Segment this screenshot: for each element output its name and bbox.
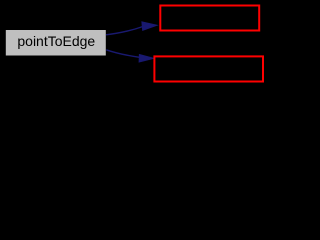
node pointToEdge (current function, grey box) [5,30,106,57]
bottom called node (truncated, red box) [154,56,263,81]
top called node (truncated, red box) [160,6,259,31]
arrowhead of bottom edge [139,55,154,63]
edge to top node (wire) [106,27,143,35]
svg-text:pointToEdge: pointToEdge [17,33,95,49]
arrowhead of top edge [142,22,157,30]
edge to bottom node (wire) [106,50,139,58]
